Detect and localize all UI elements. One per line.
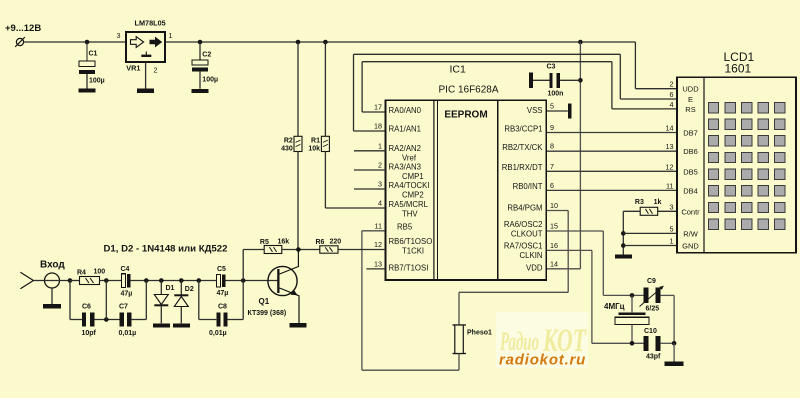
ground Q1 emitter — [290, 323, 307, 327]
svg-text:RB3/CCP1: RB3/CCP1 — [504, 125, 542, 134]
wire RB2 to DB6 — [546, 150, 677, 152]
svg-text:8: 8 — [550, 142, 554, 151]
resistor R6 220 — [320, 246, 338, 253]
svg-text:14: 14 — [666, 124, 674, 133]
wire to LCD R/W — [623, 232, 677, 234]
svg-text:11: 11 — [375, 221, 382, 230]
svg-text:E: E — [688, 95, 693, 104]
node Q1 base — [241, 278, 246, 283]
svg-text:R2: R2 — [284, 138, 293, 145]
svg-text:13: 13 — [666, 142, 674, 151]
resistor R2 430 — [294, 136, 302, 151]
svg-text:R1: R1 — [311, 138, 320, 145]
svg-text:16: 16 — [550, 241, 558, 250]
ground C1 — [79, 89, 96, 93]
svg-text:LM78L05: LM78L05 — [135, 18, 166, 27]
voltage regulator VR1 LM78L05 — [126, 32, 165, 62]
svg-text:9: 9 — [550, 123, 554, 132]
svg-text:RA0/AN0: RA0/AN0 — [389, 106, 422, 115]
svg-text:5: 5 — [670, 224, 674, 233]
svg-text:RA5/MCRL: RA5/MCRL — [389, 200, 429, 209]
ground C2 — [192, 89, 209, 93]
svg-text:UDD: UDD — [682, 85, 699, 94]
wire OSC1 pin16 — [546, 249, 592, 251]
op IC1 PIC16F628A box — [386, 100, 547, 280]
svg-text:1: 1 — [378, 141, 382, 150]
wire R4 to C4 — [100, 280, 122, 282]
svg-text:C10: C10 — [644, 328, 657, 335]
node C8 branch — [197, 278, 202, 283]
svg-text:CLKIN: CLKIN — [520, 251, 543, 260]
resistor R4 100 — [80, 277, 100, 285]
svg-text:10pf: 10pf — [82, 330, 97, 337]
node R2 top — [296, 40, 301, 45]
wire input to R4 node — [45, 280, 71, 282]
svg-text:430: 430 — [281, 146, 293, 153]
svg-text:C8: C8 — [218, 303, 227, 310]
wire connector shield — [51, 288, 53, 304]
svg-text:C2: C2 — [202, 51, 211, 58]
svg-text:RB0/INT: RB0/INT — [513, 182, 543, 191]
svg-text:R4: R4 — [77, 269, 86, 276]
wire RA1 pin18 to LCD E — [354, 130, 386, 132]
capacitor C7 0,01u — [120, 313, 124, 327]
svg-text:EEPROM: EEPROM — [444, 109, 487, 120]
svg-text:17: 17 — [374, 103, 382, 112]
capacitor C2 — [198, 40, 203, 45]
wire C6/C7 node up — [105, 281, 107, 320]
svg-text:R5: R5 — [260, 239, 269, 246]
node input — [68, 278, 73, 283]
input terminal — [15, 37, 25, 47]
wire OSC2 pin15 — [546, 230, 603, 232]
svg-text:47µ: 47µ — [121, 290, 133, 297]
wire VR1 pin2 — [145, 62, 147, 89]
capacitor C5 47u — [216, 275, 220, 288]
svg-text:RA3/AN3: RA3/AN3 — [389, 163, 422, 172]
capacitor C6 10pf branch — [69, 281, 71, 320]
svg-text:DB4: DB4 — [683, 186, 698, 195]
wire input — [33, 280, 44, 282]
svg-text:VSS: VSS — [527, 106, 543, 115]
svg-text:C5: C5 — [217, 266, 226, 273]
wire R1 top — [324, 42, 326, 136]
wire +5V rail — [165, 41, 635, 43]
svg-text:4МГц: 4МГц — [604, 302, 625, 311]
svg-text:7: 7 — [550, 162, 554, 171]
svg-text:12: 12 — [666, 162, 674, 171]
wire C9 right — [661, 294, 675, 296]
svg-text:2: 2 — [154, 66, 158, 75]
svg-text:radiokot.ru: radiokot.ru — [499, 352, 586, 369]
svg-text:47µ: 47µ — [217, 290, 229, 297]
wire C7 right up — [145, 281, 147, 320]
node VDD branch — [578, 40, 583, 45]
resistor R1 10k — [321, 136, 329, 151]
node crystal bottom — [630, 341, 635, 346]
ground C3 — [529, 73, 533, 88]
IC EEPROM box — [438, 100, 498, 280]
svg-text:0,01µ: 0,01µ — [119, 330, 137, 337]
svg-text:11: 11 — [666, 181, 673, 190]
wire R2 bottom to collector node — [297, 152, 299, 250]
node crystal top — [630, 293, 635, 298]
svg-text:PIC 16F628A: PIC 16F628A — [439, 84, 499, 95]
wire RB1 to DB5 — [546, 170, 677, 172]
watermark Радио КОТ — [499, 323, 587, 359]
input connector — [20, 272, 33, 288]
wire C5 to Q1 base — [226, 280, 278, 282]
piezo Pheso1 — [453, 325, 467, 354]
svg-text:R6: R6 — [316, 239, 325, 246]
IC pin13 stub — [366, 268, 385, 270]
svg-text:4: 4 — [670, 100, 674, 109]
svg-text:CLKOUT: CLKOUT — [511, 229, 543, 238]
svg-text:10: 10 — [550, 201, 558, 210]
ground D1 — [153, 323, 170, 327]
svg-text:16k: 16k — [278, 239, 290, 246]
capacitor C8 0,01u branch — [198, 281, 200, 320]
svg-text:THV: THV — [402, 209, 418, 218]
ground VSS — [568, 103, 572, 118]
node C9/C10 ground — [672, 341, 677, 346]
svg-text:100n: 100n — [548, 90, 564, 97]
svg-text:6: 6 — [670, 90, 674, 99]
resistor R3 1k — [640, 207, 658, 215]
display LCD1 1601 box — [677, 77, 796, 253]
svg-text:КТ399 (368): КТ399 (368) — [248, 310, 287, 317]
wire C8 right up to base — [242, 281, 244, 320]
svg-text:3: 3 — [670, 202, 674, 211]
wire to ground — [673, 343, 675, 361]
node R4/C4 — [104, 278, 109, 283]
watermark background — [496, 312, 588, 368]
svg-text:10k: 10k — [308, 146, 320, 153]
ground connector — [43, 304, 61, 309]
ground crystal — [665, 362, 684, 367]
svg-text:C1: C1 — [89, 50, 98, 57]
svg-text:Vref: Vref — [402, 154, 417, 163]
svg-text:1: 1 — [670, 237, 674, 246]
IC divider left — [433, 100, 435, 280]
svg-text:RB4/PGM: RB4/PGM — [507, 203, 542, 212]
transistor Q1 KT399 — [268, 250, 299, 324]
svg-text:RB7/T1OSI: RB7/T1OSI — [389, 264, 429, 273]
svg-text:CMP2: CMP2 — [402, 191, 424, 200]
svg-text:RA7/OSC1: RA7/OSC1 — [504, 241, 543, 250]
svg-text:R3: R3 — [635, 199, 644, 206]
svg-text:T1CKI: T1CKI — [402, 246, 424, 255]
svg-text:5: 5 — [550, 102, 554, 111]
svg-text:D2: D2 — [185, 286, 194, 293]
svg-text:RA1/AN1: RA1/AN1 — [389, 125, 422, 134]
svg-text:43pf: 43pf — [646, 353, 661, 360]
wire R1 bottom — [324, 152, 326, 209]
wire to LCD pin2 UDD — [635, 88, 677, 90]
svg-text:15: 15 — [550, 222, 558, 231]
IC left pin stubs 1,2,3 — [354, 150, 386, 152]
capacitor C1 — [85, 40, 90, 45]
svg-text:100: 100 — [94, 269, 106, 276]
wire to LCD GND — [623, 245, 677, 247]
svg-text:RS: RS — [685, 105, 695, 114]
svg-text:14: 14 — [550, 259, 558, 268]
diode D1 — [160, 281, 162, 295]
diode D2 — [180, 281, 182, 295]
wire +9V rail left — [24, 41, 126, 43]
svg-text:Pheso1: Pheso1 — [467, 330, 492, 337]
svg-text:RA4/TOCKI: RA4/TOCKI — [389, 181, 430, 190]
svg-text:0,01µ: 0,01µ — [209, 330, 227, 337]
svg-text:6: 6 — [550, 181, 554, 190]
ground VR1 — [137, 89, 154, 93]
wire RB4 pin10 to piezo — [546, 210, 568, 212]
svg-text:RA6/OSC2: RA6/OSC2 — [504, 220, 543, 229]
svg-text:Q1: Q1 — [259, 297, 270, 306]
capacitor C10 43pf — [644, 336, 649, 351]
svg-text:1601: 1601 — [725, 62, 752, 76]
svg-text:6/25: 6/25 — [646, 306, 660, 313]
wire R3 to ground — [622, 211, 624, 254]
ground D2 — [173, 323, 190, 327]
wire R5 to R6 — [282, 249, 320, 251]
svg-text:DB5: DB5 — [683, 167, 698, 176]
svg-text:220: 220 — [330, 239, 342, 246]
wire down to C10 node — [673, 295, 675, 343]
ground LCD — [615, 255, 632, 259]
wire RA0 pin17 to LCD RS — [362, 111, 385, 113]
svg-text:RB2/TX/CK: RB2/TX/CK — [502, 143, 543, 152]
node R/W junction — [621, 231, 626, 236]
node GND junction — [621, 243, 626, 248]
wire R6 to pin 12 — [338, 249, 386, 251]
svg-text:RB5: RB5 — [397, 222, 413, 231]
svg-text:3: 3 — [117, 31, 121, 40]
svg-text:1k: 1k — [654, 199, 662, 206]
svg-text:DB7: DB7 — [683, 129, 698, 138]
wire +5V down to VDD — [579, 42, 581, 269]
wire C4 to C5 — [131, 280, 217, 282]
wire to pin 4 MCLR — [325, 207, 385, 209]
LCD divider — [703, 77, 705, 253]
svg-text:18: 18 — [374, 122, 382, 131]
svg-text:GND: GND — [682, 242, 699, 251]
capacitor C3 100n — [578, 78, 583, 83]
svg-text:2: 2 — [670, 80, 674, 89]
svg-text:CMP1: CMP1 — [402, 172, 424, 181]
wire piezo bottom to RB5 pin11 — [458, 354, 460, 371]
svg-text:RA2/AN2: RA2/AN2 — [389, 144, 422, 153]
svg-text:RB6/T1OSO: RB6/T1OSO — [389, 237, 433, 246]
svg-text:C6: C6 — [82, 303, 91, 310]
svg-text:C4: C4 — [121, 266, 130, 273]
wire C10 right — [661, 342, 675, 344]
svg-text:3: 3 — [378, 180, 382, 189]
svg-text:C9: C9 — [647, 278, 656, 285]
crystal Q 4MHz — [631, 295, 633, 312]
svg-text:12: 12 — [374, 240, 382, 249]
capacitor C9 6/25 trimmer — [644, 288, 649, 303]
svg-text:DB6: DB6 — [683, 147, 698, 156]
node D1 — [159, 278, 164, 283]
svg-text:IC1: IC1 — [450, 63, 467, 75]
svg-text:Вход: Вход — [40, 259, 65, 270]
svg-text:100µ: 100µ — [202, 76, 218, 83]
svg-text:VR1: VR1 — [126, 63, 140, 72]
svg-text:R/W: R/W — [683, 229, 699, 238]
svg-text:D1, D2 - 1N4148 или КД522: D1, D2 - 1N4148 или КД522 — [104, 243, 228, 254]
svg-text:100µ: 100µ — [89, 78, 105, 85]
wire to pin 14 VDD — [546, 268, 580, 270]
wire RB0 to DB4 — [546, 189, 677, 191]
wire VSS pin5 — [546, 110, 568, 112]
svg-text:+9...12В: +9...12В — [5, 23, 41, 34]
wire base feedback — [242, 250, 244, 281]
wire R3 left — [623, 210, 640, 212]
capacitor C4 47u — [121, 274, 125, 288]
node D2 — [179, 278, 184, 283]
wire rail corner down to UDD — [634, 42, 636, 89]
svg-text:RB1/RX/DT: RB1/RX/DT — [502, 163, 543, 172]
wire R2 top — [297, 42, 299, 136]
svg-text:D1: D1 — [166, 285, 175, 292]
svg-text:C7: C7 — [119, 303, 128, 310]
LCD dot matrix — [708, 102, 785, 229]
resistor R5 16k — [264, 246, 282, 254]
node R1 top — [323, 40, 328, 45]
svg-text:2: 2 — [378, 161, 382, 170]
svg-text:Contr: Contr — [681, 207, 700, 216]
svg-text:VDD: VDD — [526, 264, 543, 273]
svg-text:1: 1 — [169, 31, 173, 40]
node C4/C7 — [144, 278, 149, 283]
wire RB3 to DB7 — [546, 132, 677, 134]
svg-text:C3: C3 — [547, 63, 556, 70]
svg-text:13: 13 — [374, 259, 382, 268]
wire Contr — [658, 210, 677, 212]
node collector — [296, 247, 301, 252]
node C6/C7 — [104, 317, 109, 322]
svg-text:4: 4 — [378, 199, 382, 208]
